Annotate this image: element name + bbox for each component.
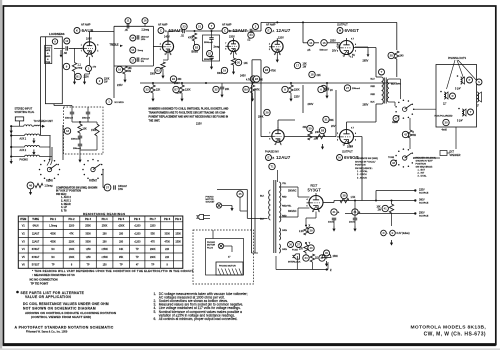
resistor R19 3300 — [221, 67, 227, 73]
svg-text:4: 4 — [86, 56, 87, 58]
svg-text:BLK: BLK — [260, 219, 265, 221]
resistor R220K 1W — [96, 78, 102, 84]
jack J1 aux 1 — [10, 134, 12, 136]
svg-text:20V: 20V — [332, 50, 337, 53]
svg-text:23: 23 — [182, 25, 186, 29]
svg-text:1.5meg: 1.5meg — [45, 185, 54, 188]
svg-text:7: 7 — [225, 43, 226, 45]
svg-text:A: A — [54, 39, 56, 43]
svg-text:5%: 5% — [141, 61, 144, 63]
wire V2A coupling bus — [168, 30, 181, 32]
wiper arrow loudness — [54, 47, 61, 49]
svg-text:A PHOTOFACT STANDARD NOTATION: A PHOTOFACT STANDARD NOTATION SCHEMATIC — [15, 325, 114, 329]
wire V4 plate to top bus — [346, 22, 348, 38]
svg-text:45: 45 — [238, 192, 242, 196]
svg-text:2200: 2200 — [150, 225, 156, 228]
svg-text:14: 14 — [131, 48, 135, 52]
tube V4 6V6GT — [340, 41, 354, 55]
svg-text:22K: 22K — [156, 89, 161, 92]
svg-text:12AU7: 12AU7 — [276, 28, 291, 33]
svg-text:140V: 140V — [164, 36, 170, 39]
svg-text:120V: 120V — [278, 37, 284, 40]
svg-text:330mmf: 330mmf — [65, 118, 73, 120]
resistor R9 1.1meg grid — [63, 63, 69, 69]
svg-text:285V: 285V — [363, 60, 369, 63]
capacitor C14 .05 — [308, 40, 314, 46]
svg-text:SPEAKER: SPEAKER — [450, 154, 461, 157]
svg-text:41: 41 — [384, 207, 388, 211]
svg-text:8: 8 — [170, 54, 171, 56]
transformer T2 secondary — [387, 79, 389, 102]
capacitor C26 coupling phase — [320, 85, 326, 91]
capacitor C3 cathode bypass — [86, 66, 92, 72]
svg-text:150K: 150K — [175, 240, 181, 243]
svg-text:22K: 22K — [317, 74, 322, 77]
svg-text:STEREO INPUT: STEREO INPUT — [15, 108, 33, 111]
svg-text:6AU6: 6AU6 — [82, 28, 94, 33]
wire front wafer to grid bus — [62, 125, 64, 160]
resistor R46 1.5meg — [27, 182, 34, 189]
svg-text:Pin 3: Pin 3 — [85, 218, 92, 221]
svg-text:↑250K: ↑250K — [101, 256, 108, 259]
svg-text:1: 1 — [81, 45, 82, 47]
capacitor C16 500mmf — [321, 40, 327, 46]
cable row1 to stereo unit — [11, 125, 24, 127]
svg-text:OUTPUT: OUTPUT — [342, 150, 353, 154]
svg-text:20: 20 — [237, 61, 241, 65]
svg-text:20V: 20V — [331, 125, 336, 128]
svg-text:Pin 9: Pin 9 — [175, 218, 182, 221]
svg-text:TO STEREO UNIT: TO STEREO UNIT — [34, 121, 54, 123]
svg-text:* THIS READING WILL VARY DEP: * THIS READING WILL VARY DEPENDING UPON … — [32, 269, 194, 273]
svg-text:5Y3GT: 5Y3GT — [308, 188, 322, 193]
resistor R18b 150K — [95, 124, 99, 136]
wire socket to AC — [239, 205, 241, 211]
svg-text:3: 3 — [269, 49, 270, 51]
tweeter SP3 3 inch — [476, 79, 482, 85]
tube V3B label — [266, 155, 272, 161]
capacitor C31A filter — [331, 209, 337, 215]
svg-text:2.2meg: 2.2meg — [142, 29, 150, 31]
transformer T2 label — [379, 69, 385, 75]
svg-text:NO WDG: NO WDG — [115, 102, 125, 104]
tube V4 label — [337, 28, 343, 34]
svg-text:250K: 250K — [85, 225, 91, 228]
svg-text:2200: 2200 — [69, 225, 75, 228]
svg-text:SHORTING PLUG: SHORTING PLUG — [15, 111, 35, 114]
wire speaker box bottom to jack — [455, 127, 457, 149]
svg-text:AF AMP: AF AMP — [266, 23, 276, 27]
ground M35 — [326, 261, 328, 264]
wire wafer to speaker box — [414, 108, 436, 110]
svg-text:6AU6: 6AU6 — [33, 225, 40, 228]
resistor R34 2 ohm — [303, 255, 309, 261]
capacitor C18a 330mmf — [70, 111, 74, 113]
svg-text:4mfd: 4mfd — [442, 130, 448, 132]
svg-text:AF AMP: AF AMP — [81, 23, 91, 27]
svg-text:↑1200: ↑1200 — [134, 233, 141, 236]
wire V3B grid — [261, 136, 269, 138]
circled 2 B plus tag — [253, 24, 259, 30]
svg-text:30: 30 — [308, 127, 312, 131]
resistor R29b 290K — [264, 109, 270, 115]
svg-text:B8: B8 — [321, 128, 325, 132]
wire treble bus — [90, 31, 115, 33]
svg-text:6V6GT: 6V6GT — [32, 248, 40, 251]
svg-text:B2: B2 — [195, 45, 199, 49]
svg-text:Pin 5: Pin 5 — [118, 218, 125, 221]
svg-text:5: 5 — [97, 51, 98, 53]
svg-text:AF AMP: AF AMP — [158, 23, 168, 27]
svg-text:3300: 3300 — [217, 73, 223, 75]
svg-text:RED: RED — [282, 197, 287, 199]
svg-text:3 - DUAL: 3 - DUAL — [418, 175, 428, 178]
svg-text:BASS: BASS — [192, 51, 199, 54]
wire loop left mid — [252, 59, 261, 61]
ground V3A cathode — [276, 52, 278, 57]
resistor R18a 10K — [78, 124, 82, 133]
svg-text:1.5meg: 1.5meg — [49, 225, 58, 228]
capacitor C15 180mmf — [130, 35, 136, 41]
svg-text:30: 30 — [444, 121, 448, 125]
svg-text:N: N — [338, 156, 340, 160]
resistor RB7 120K — [173, 86, 179, 92]
svg-text:4: 4 — [355, 44, 356, 46]
svg-text:3300: 3300 — [85, 240, 91, 243]
svg-text:47K: 47K — [256, 89, 261, 92]
ground row aux1 — [33, 138, 35, 141]
plug P1 stereo input — [15, 117, 23, 121]
svg-text:1: 1 — [280, 144, 281, 146]
svg-text:12AU7: 12AU7 — [276, 155, 291, 160]
wire V5 plate to T2 — [346, 122, 348, 127]
AC interlock plug — [294, 254, 300, 259]
svg-text:GRN: GRN — [282, 249, 287, 251]
wire fan to rear rotary — [47, 160, 50, 166]
transformer T3 core — [273, 180, 275, 253]
svg-text:1.: 1. — [154, 292, 157, 296]
speaker SP1 5.25 inch — [460, 77, 462, 84]
svg-text:120K: 120K — [185, 89, 191, 92]
svg-text:250V: 250V — [174, 82, 180, 85]
svg-text:2meg: 2meg — [214, 47, 220, 49]
svg-text:3 - MOOD: 3 - MOOD — [357, 177, 367, 179]
svg-text:AUX 2: AUX 2 — [20, 149, 27, 152]
svg-text:16: 16 — [143, 19, 147, 23]
svg-text:LOUD: LOUD — [45, 47, 51, 49]
svg-text:-: - — [387, 232, 388, 235]
svg-text:220K: 220K — [104, 79, 110, 81]
svg-text:20K: 20K — [225, 88, 230, 91]
svg-text:7: 7 — [81, 51, 82, 53]
svg-text:150V: 150V — [229, 36, 235, 39]
svg-text:300VAC: 300VAC — [288, 190, 297, 193]
svg-text:TREB: TREB — [45, 62, 51, 64]
resistor RB1 cathode — [75, 73, 81, 79]
svg-text:245V: 245V — [240, 75, 246, 78]
svg-text:130K: 130K — [69, 256, 75, 259]
resistor R30k 30K — [307, 125, 313, 131]
resistor R8 220K — [282, 86, 288, 92]
svg-text:A: A — [273, 29, 275, 33]
switch SW1A rear wafer — [59, 169, 61, 171]
wire V3A grid — [269, 46, 272, 48]
svg-text:10K: 10K — [244, 62, 249, 65]
svg-text:S: S — [478, 80, 480, 84]
wire phono motor top — [217, 189, 247, 191]
svg-text:3: 3 — [92, 56, 93, 58]
control R1 loudness box — [45, 37, 62, 104]
svg-text:D: D — [383, 231, 385, 235]
capacitor C27 180mmf — [104, 184, 111, 191]
wire V1 plate to treble bus — [89, 32, 91, 40]
svg-text:PHASING DOTS: PHASING DOTS — [448, 57, 466, 60]
wire phase inv top — [302, 85, 304, 113]
svg-text:5: 5 — [337, 133, 338, 135]
svg-text:T: T — [381, 70, 383, 74]
transformer T3 power label — [269, 163, 275, 169]
svg-text:240: 240 — [400, 55, 405, 58]
wiper treble to grid — [153, 46, 160, 48]
svg-text:31: 31 — [332, 210, 336, 214]
capacitor C11 .05 — [125, 18, 131, 24]
wire phasing pointer lines — [447, 60, 456, 89]
ground row phono — [10, 159, 12, 162]
resistor R25 470K — [250, 76, 256, 82]
svg-text:1: 1 — [236, 53, 237, 55]
svg-text:Pin 7: Pin 7 — [150, 218, 157, 221]
wire HV top plate — [279, 186, 298, 188]
tube V1 6AU6 label — [74, 28, 80, 34]
phono motor plug dashed box — [193, 230, 254, 284]
svg-text:5: 5 — [337, 44, 338, 46]
svg-text:OUTPUT: OUTPUT — [337, 23, 348, 27]
ground loudness network — [79, 154, 81, 157]
ground tone network — [124, 77, 126, 80]
terminal row1 — [10, 125, 12, 127]
svg-text:SOURCE: SOURCE — [419, 203, 429, 205]
svg-text:38: 38 — [342, 194, 346, 198]
svg-text:TREBLE: TREBLE — [110, 44, 119, 46]
svg-text:AF AMP: AF AMP — [222, 23, 232, 27]
svg-text:215V: 215V — [294, 96, 300, 99]
wire rectifier output — [315, 190, 317, 194]
svg-text:TP: TP — [120, 264, 123, 267]
svg-text:MOTOROLA MODELS 8K13B,: MOTOROLA MODELS 8K13B, — [410, 324, 486, 330]
svg-text:4: 4 — [230, 53, 231, 55]
svg-text:Pin 1: Pin 1 — [50, 218, 57, 221]
svg-text:290K: 290K — [150, 248, 156, 251]
phasing dot SP2 — [440, 91, 442, 93]
wire V4 plate to T2 — [354, 47, 377, 49]
wire plate node down — [302, 22, 304, 42]
resistor R33 22K decoupling — [144, 86, 150, 92]
svg-text:225V: 225V — [419, 189, 425, 192]
svg-text:VALUE OR APPLICATION: VALUE OR APPLICATION — [25, 295, 71, 299]
svg-text:POSITION: POSITION — [355, 165, 366, 167]
capacitor C23 .02 — [181, 23, 187, 29]
wire AC to primary — [255, 252, 268, 254]
svg-text:ITEM: ITEM — [20, 218, 26, 221]
svg-text:450K: 450K — [50, 233, 56, 236]
svg-text:BLK: BLK — [260, 196, 265, 198]
svg-text:CW, M, W (Ch. HS-673): CW, M, W (Ch. HS-673) — [424, 331, 486, 337]
svg-text:40: 40 — [309, 246, 313, 250]
svg-text:130K: 130K — [69, 248, 75, 251]
svg-text:290: 290 — [103, 233, 108, 236]
ground heater — [391, 237, 393, 240]
svg-text:TRANSFORMERS ARE TO FACILITATE: TRANSFORMERS ARE TO FACILITATE CIRCUIT T… — [149, 111, 226, 114]
transformer T3 filament windings — [279, 228, 281, 240]
svg-text:290K: 290K — [150, 256, 156, 259]
fuse F1 — [288, 242, 294, 248]
switch SW3A speaker wafer rear — [413, 108, 415, 110]
capacitor C17 470mmf — [130, 57, 136, 63]
junction B+ V2 — [205, 82, 207, 84]
wire HV bottom plate — [279, 216, 298, 218]
svg-text:RED/YEL: RED/YEL — [282, 206, 292, 208]
wire input right bus — [49, 136, 51, 161]
tube V5 label — [337, 155, 343, 161]
wire mid vertical — [204, 83, 206, 95]
wire V3B plate to coupling — [277, 120, 279, 128]
capacitor C18d 390mmf — [78, 143, 82, 145]
svg-text:470K: 470K — [271, 71, 277, 73]
capacitor C18c 3300mmf — [78, 135, 82, 137]
svg-text:B: B — [229, 29, 231, 33]
transformer T2 primary — [382, 77, 384, 104]
svg-text:meg: meg — [78, 67, 83, 70]
svg-text:1.5K: 1.5K — [351, 197, 356, 199]
svg-text:SOCKET: SOCKET — [206, 202, 216, 204]
svg-text:4: 4 — [306, 199, 307, 201]
resistor R39 2.2K — [308, 227, 314, 233]
wire V2B grid — [225, 46, 228, 48]
svg-text:6: 6 — [306, 205, 307, 207]
svg-text:14: 14 — [309, 41, 313, 45]
svg-text:290: 290 — [119, 240, 124, 243]
svg-text:215V: 215V — [117, 84, 123, 87]
svg-text:10%: 10% — [141, 39, 145, 41]
phasing dot SP4 — [458, 108, 460, 110]
svg-text:7: 7 — [269, 133, 270, 135]
selenium rectifier M35 — [322, 253, 331, 258]
tube V5 6V6GT — [340, 130, 354, 144]
svg-text:MOTOR: MOTOR — [207, 245, 216, 247]
svg-text:390mmf: 390mmf — [82, 118, 90, 120]
tube V6 5Y3GT — [309, 196, 323, 210]
resistor RB9 47K — [243, 86, 249, 92]
resistor R28 240 ohm — [388, 52, 394, 58]
svg-text:10K: 10K — [377, 207, 382, 209]
wire front wafer down — [102, 170, 104, 188]
svg-text:500mmf: 500mmf — [320, 50, 328, 52]
switch SW1B front wafer — [102, 169, 104, 171]
ground row aux2 — [33, 150, 35, 153]
node 225V — [414, 189, 416, 191]
resistor R21 470K — [196, 23, 202, 29]
resistor R10 18K 5% — [116, 66, 122, 72]
svg-text:REAR: REAR — [392, 121, 398, 124]
wire coupling loop V3A — [260, 22, 262, 31]
wire treble bottom to R10 — [124, 64, 126, 66]
svg-text:EXT: EXT — [450, 152, 455, 154]
svg-text:REAR: REAR — [46, 180, 53, 183]
wire T2 secondary to speaker switch — [389, 78, 401, 80]
svg-text:B4: B4 — [172, 77, 176, 81]
switch SW4 power on volume — [106, 99, 112, 105]
svg-text:RED: RED — [371, 94, 376, 96]
svg-text:PHASE INV: PHASE INV — [265, 150, 279, 154]
svg-text:2: 2 — [269, 43, 270, 45]
svg-text:(CONTROL VIEWED FROM SHAFT END: (CONTROL VIEWED FROM SHAFT END) — [31, 315, 91, 319]
ground V2B cathode — [233, 69, 235, 72]
node Y — [305, 242, 307, 244]
svg-text:TP: TP — [52, 264, 55, 267]
svg-text:39: 39 — [309, 229, 313, 233]
tube V1 6AU6 — [83, 42, 95, 54]
wire bias bottom row — [276, 269, 328, 271]
svg-text:TP: TP — [136, 248, 139, 251]
svg-text:4: 4 — [355, 133, 356, 135]
svg-text:95K: 95K — [119, 256, 124, 259]
B+ arrow 285V — [367, 50, 369, 55]
svg-text:3: 3 — [355, 139, 356, 141]
svg-text:7: 7 — [343, 145, 344, 147]
ground bus row1 — [10, 128, 12, 131]
svg-text:17: 17 — [131, 58, 135, 62]
wire 225V source — [376, 190, 415, 192]
svg-text:TONE: TONE — [388, 157, 395, 159]
svg-text:7: 7 — [343, 56, 344, 58]
svg-text:E: E — [392, 231, 394, 235]
svg-text:47K: 47K — [151, 240, 156, 243]
resistor R20 10K — [235, 59, 241, 65]
resistor R16 2.2meg — [142, 18, 148, 24]
svg-text:↑ MEASURED FROM PINS OF V6: ↑ MEASURED FROM PINS OF V6 — [32, 273, 75, 277]
svg-text:TUBE: TUBE — [32, 218, 39, 221]
svg-text:↑1200: ↑1200 — [134, 225, 141, 228]
svg-text:220: 220 — [165, 248, 170, 251]
svg-text:19: 19 — [223, 69, 227, 73]
svg-text:6: 6 — [269, 139, 270, 141]
network bass box — [203, 35, 220, 61]
ground V1 cathode — [84, 79, 86, 82]
jack J3 phono — [10, 156, 12, 158]
capacitor C6 bypass — [318, 86, 324, 92]
phono motor inner box — [206, 239, 244, 276]
svg-text:PHONO: PHONO — [207, 242, 215, 244]
wire V5 screen — [354, 136, 363, 138]
resistor R42 8 ohm 5W — [402, 131, 408, 137]
svg-text:↑250K: ↑250K — [101, 248, 108, 251]
wire bias row — [305, 235, 307, 245]
svg-text:2.2K: 2.2K — [299, 231, 304, 233]
capacitor C31C filter — [319, 255, 325, 261]
svg-text:E: E — [267, 156, 269, 160]
svg-text:SW SEQUENCE :: SW SEQUENCE : — [355, 168, 373, 170]
svg-text:200V: 200V — [308, 103, 314, 106]
wire loudness box bottom to network — [53, 104, 55, 106]
svg-text:150K: 150K — [333, 256, 339, 258]
svg-text:31: 31 — [324, 118, 328, 122]
label heater wiring — [381, 230, 387, 236]
svg-text:X: X — [309, 224, 311, 228]
svg-text:PRESENCE SW (SW2): PRESENCE SW (SW2) — [355, 158, 378, 160]
svg-text:6V6GT: 6V6GT — [32, 256, 40, 259]
svg-text:5Y3GT: 5Y3GT — [32, 264, 40, 267]
node X — [305, 225, 307, 227]
